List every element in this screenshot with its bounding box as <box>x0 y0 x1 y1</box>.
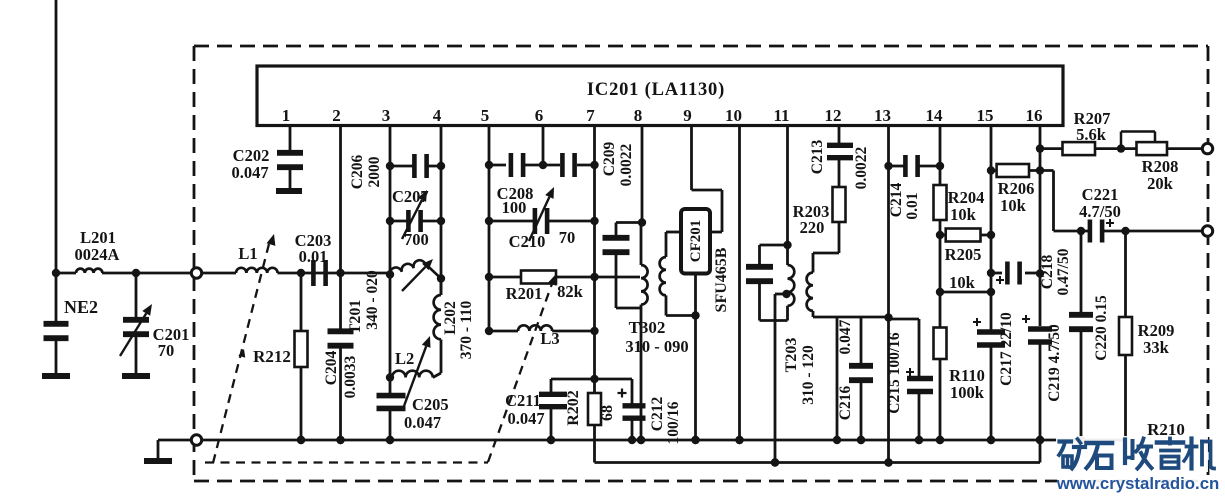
svg-text:C209: C209 <box>601 142 618 177</box>
variable capacitor C207 700 <box>390 220 407 223</box>
svg-text:0.047: 0.047 <box>507 409 544 428</box>
svg-text:0.0022: 0.0022 <box>853 146 870 189</box>
variable inductor T201 primary <box>386 270 394 278</box>
svg-text:8: 8 <box>634 106 643 125</box>
svg-text:340 - 020: 340 - 020 <box>364 270 381 330</box>
pin 6 line <box>542 126 545 165</box>
T302 tank: pin 8 <box>641 126 644 223</box>
capacitor C214 0.01 <box>889 165 905 168</box>
svg-text:C204: C204 <box>323 351 340 386</box>
svg-text:C215 100/16: C215 100/16 <box>886 332 903 414</box>
svg-text:700: 700 <box>404 230 429 249</box>
svg-text:C206: C206 <box>349 155 366 190</box>
svg-text:82k: 82k <box>557 282 584 301</box>
audio out terminal <box>1202 226 1212 236</box>
svg-text:L3: L3 <box>540 329 559 348</box>
capacitor NE2 <box>55 273 58 322</box>
svg-text:7: 7 <box>586 106 595 125</box>
svg-text:L202: L202 <box>442 301 459 335</box>
secondary ground trace <box>595 461 1041 464</box>
svg-text:15: 15 <box>977 106 994 125</box>
svg-text:C216: C216 <box>837 386 854 421</box>
svg-text:12: 12 <box>825 106 842 125</box>
resistor R209 33k <box>1124 231 1127 317</box>
watermark url <box>1057 476 1208 492</box>
svg-text:4.7/50: 4.7/50 <box>1079 202 1121 221</box>
capacitor C212 100/16 <box>595 378 633 381</box>
svg-text:C220 0.15: C220 0.15 <box>1093 295 1110 361</box>
svg-text:220: 220 <box>800 218 825 237</box>
capacitor C215 100/16 <box>889 318 920 321</box>
dashed shield box border <box>194 45 1208 48</box>
svg-text:T302: T302 <box>629 318 666 337</box>
svg-text:IC201 (LA1130): IC201 (LA1130) <box>587 80 725 100</box>
svg-text:10k: 10k <box>1000 196 1027 215</box>
pin 5 line <box>488 126 491 331</box>
svg-text:0.0033: 0.0033 <box>342 355 359 398</box>
capacitor C202 0.047 on pin 1 <box>289 126 292 152</box>
svg-text:T203: T203 <box>783 338 800 373</box>
svg-text:T201: T201 <box>347 300 364 335</box>
svg-text:R202: R202 <box>565 390 582 426</box>
resistor R202 68 <box>590 375 598 383</box>
svg-text:C205: C205 <box>412 395 449 414</box>
svg-text:www.crystalradio.cn: www.crystalradio.cn <box>1056 474 1220 493</box>
svg-text:10k: 10k <box>950 205 977 224</box>
resistor R203 220 <box>833 187 846 222</box>
antenna wire <box>56 272 76 275</box>
resistor R204 10k <box>939 126 942 185</box>
svg-text:16: 16 <box>1026 106 1043 125</box>
watermark 矿石收音机 <box>1056 436 1208 472</box>
svg-text:0.047: 0.047 <box>231 163 268 182</box>
svg-text:100k: 100k <box>950 383 985 402</box>
svg-text:C218: C218 <box>1039 255 1056 290</box>
capacitor C221 4.7/50 <box>1077 227 1085 235</box>
svg-text:310 - 090: 310 - 090 <box>625 337 688 356</box>
svg-text:3: 3 <box>382 106 391 125</box>
svg-text:0.047: 0.047 <box>404 413 441 432</box>
terminal node (antenna in) <box>191 268 201 278</box>
svg-text:0.047: 0.047 <box>837 319 854 354</box>
svg-text:1: 1 <box>282 106 291 125</box>
pin 4 line <box>440 126 443 295</box>
resistor R208 20k with jumper <box>1137 142 1168 155</box>
svg-text:2000: 2000 <box>366 156 383 187</box>
svg-text:CF201: CF201 <box>688 220 704 263</box>
variable inductor L2 <box>386 373 394 381</box>
svg-text:SFU465B: SFU465B <box>713 247 730 312</box>
pin 10 line <box>738 126 741 440</box>
variable capacitor C201 70 <box>135 273 138 318</box>
svg-text:NE2: NE2 <box>64 297 98 317</box>
resistor R206 10k <box>987 166 995 174</box>
antenna downlead <box>55 0 58 274</box>
svg-text:5: 5 <box>481 106 490 125</box>
svg-text:14: 14 <box>926 106 944 125</box>
svg-text:9: 9 <box>683 106 692 125</box>
svg-text:C207: C207 <box>392 187 429 206</box>
svg-text:10: 10 <box>725 106 742 125</box>
svg-text:R212: R212 <box>253 347 291 366</box>
svg-text:70: 70 <box>559 228 576 247</box>
resistor R201 82k <box>489 276 521 279</box>
svg-text:100/16: 100/16 <box>665 401 682 444</box>
ground rail <box>202 439 1127 442</box>
svg-text:C214: C214 <box>888 183 905 218</box>
output terminal (top right) <box>1202 143 1212 153</box>
resistor R110 100k <box>936 288 944 296</box>
svg-text:13: 13 <box>874 106 891 125</box>
capacitor C203 0.01 <box>311 260 316 286</box>
svg-text:0.0022: 0.0022 <box>618 143 635 186</box>
resistor R205 10k <box>936 231 944 239</box>
ground terminal node <box>191 435 201 445</box>
capacitor C220 0.15 <box>1080 231 1083 313</box>
svg-text:C212: C212 <box>649 397 666 432</box>
svg-text:6: 6 <box>535 106 544 125</box>
svg-text:L2: L2 <box>395 349 414 368</box>
IC U201 box IC201 LA1130 <box>257 66 1063 126</box>
ground symbol at rail left <box>158 439 192 442</box>
resistor R212 <box>297 269 305 277</box>
inductor L202 <box>437 274 445 282</box>
pin 7 line <box>593 126 596 379</box>
capacitor C205 0.047 <box>389 393 392 396</box>
transformer T302 primary <box>640 223 643 266</box>
capacitor C206 2000 <box>390 165 413 168</box>
svg-text:68: 68 <box>599 405 616 421</box>
R206->C221 route <box>1052 171 1055 232</box>
svg-text:C210: C210 <box>509 232 546 251</box>
wire to L1 <box>202 272 236 275</box>
svg-text:310 - 120: 310 - 120 <box>800 345 817 405</box>
svg-text:C219 4.7/50: C219 4.7/50 <box>1046 324 1063 402</box>
pin 16 line <box>1039 126 1042 274</box>
capacitor C204 0.0033 on pin 2 <box>339 126 342 273</box>
pin 15 line / C217 22/10 <box>990 126 993 330</box>
transformer T203 primary <box>786 245 789 265</box>
svg-text:R201: R201 <box>506 284 543 303</box>
capacitor C213 0.0022 on pin 12 <box>838 126 841 144</box>
inductor L1 <box>236 268 278 273</box>
svg-text:4: 4 <box>433 106 442 125</box>
capacitor C211 0.047 <box>551 378 595 381</box>
svg-text:20k: 20k <box>1147 174 1174 193</box>
capacitors C208 100 (series pair) <box>489 164 506 167</box>
capacitor C216 0.047 <box>860 317 863 364</box>
transformer T302 secondary <box>665 232 668 257</box>
tuning gang dashed linkage <box>205 461 488 463</box>
inductor L3 <box>489 330 518 333</box>
svg-text:100: 100 <box>502 198 527 217</box>
T203 primary tap to ground trace <box>782 290 790 298</box>
svg-text:2: 2 <box>332 106 341 125</box>
inductor L201 <box>76 269 102 273</box>
svg-text:C217 22/10: C217 22/10 <box>998 312 1015 386</box>
svg-text:C213: C213 <box>809 140 826 175</box>
svg-text:11: 11 <box>773 106 789 125</box>
svg-text:10k: 10k <box>949 273 976 292</box>
svg-text:0.01: 0.01 <box>299 247 328 266</box>
T203 tank: pin 11 <box>786 126 789 245</box>
pin 3 line <box>389 126 392 394</box>
svg-text:70: 70 <box>158 341 175 360</box>
ceramic filter CF201 SFU465B <box>690 126 693 190</box>
transformer T203 secondary <box>812 253 815 273</box>
svg-text:370 - 110: 370 - 110 <box>458 300 475 359</box>
capacitor C219 4.7/50 <box>1039 274 1042 326</box>
svg-text:0.47/50: 0.47/50 <box>1055 248 1072 295</box>
svg-text:0024A: 0024A <box>75 245 120 264</box>
resistor R207 5.6k <box>1036 144 1044 152</box>
svg-text:L1: L1 <box>238 244 257 263</box>
svg-text:R205: R205 <box>945 245 982 264</box>
capacitor C218 0.47/50 <box>987 269 995 277</box>
pin 13 line <box>887 126 890 463</box>
variable capacitor C210 70 <box>489 220 533 223</box>
svg-text:33k: 33k <box>1143 338 1170 357</box>
svg-text:0.01: 0.01 <box>904 192 921 219</box>
svg-text:5.6k: 5.6k <box>1076 125 1107 144</box>
rail junction dots <box>297 436 305 444</box>
